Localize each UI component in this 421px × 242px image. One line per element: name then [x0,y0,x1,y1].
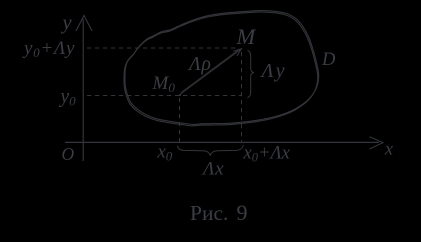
svg-text:x0+Λx: x0+Λx [243,144,291,165]
svg-text:Λx: Λx [201,159,224,180]
svg-text:Λy: Λy [260,60,287,82]
svg-text:y: y [61,12,73,34]
y-axis arrowhead [76,16,92,32]
dashed line y0+dy level [87,47,239,49]
dashed line y0 level [87,95,241,97]
region D boundary second pass (scan doubling) [125,11,319,125]
region D boundary curve [124,12,318,126]
svg-text:D: D [321,50,336,70]
point M0 dot [179,94,181,96]
x-axis line [65,141,379,143]
underbrace for delta-x [177,145,243,156]
segment M0 to M second pass (scan doubling) [181,49,240,93]
arrowhead at M [233,49,241,56]
svg-text:y0+Λy: y0+Λy [22,38,75,60]
curly brace for delta-y [248,51,255,98]
svg-text:x: x [384,139,393,159]
svg-text:Рис.9: Рис.9 [190,200,248,225]
y-axis line [82,19,84,161]
x-axis arrowhead [370,137,384,149]
dashed vertical at x0 [179,98,181,142]
segment M0 to M [181,50,241,95]
svg-text:M: M [236,24,257,49]
svg-text:Λρ: Λρ [187,54,212,75]
svg-text:O: O [62,144,75,164]
dashed vertical at x0+dx [241,52,243,142]
